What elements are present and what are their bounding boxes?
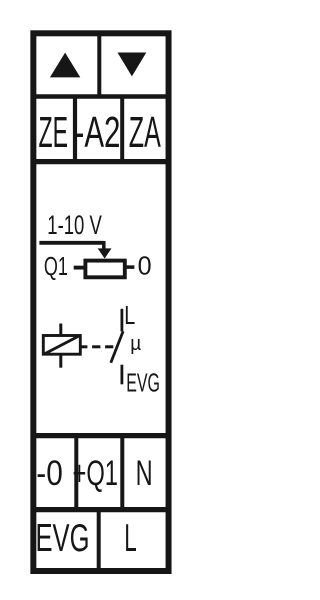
svg-text:N: N [136, 454, 153, 493]
terminal cell divider EVG/L [97, 510, 101, 571]
contact blade switch [111, 331, 123, 363]
potentiometer R1 body [85, 261, 124, 278]
wire potentiometer to 0 [126, 265, 135, 269]
control arrow head [98, 248, 112, 258]
terminal cell divider ZE/-A2 [73, 97, 77, 162]
button cell divider top row [97, 33, 101, 97]
row divider line 4 [33, 507, 169, 512]
up arrow button [50, 53, 80, 78]
terminal cell divider +Q1/N [120, 436, 124, 510]
svg-text:-A2: -A2 [75, 108, 121, 157]
svg-text:ZA: ZA [129, 108, 161, 157]
svg-text:+Q1: +Q1 [73, 454, 119, 493]
outer device frame [33, 33, 168, 571]
row divider line 1 [33, 94, 169, 99]
svg-text:EVG: EVG [126, 367, 160, 397]
terminal cell divider -0/+Q1 [74, 436, 78, 510]
wire contact terminal L [121, 309, 124, 332]
wire coil top lead [59, 324, 62, 336]
svg-text:Q1: Q1 [44, 251, 68, 281]
control arrow line [39, 241, 103, 245]
down arrow button [118, 53, 147, 77]
wire coil bottom lead [59, 355, 62, 368]
svg-text:µ: µ [130, 333, 141, 355]
terminal cell divider -A2/ZA [120, 97, 124, 162]
svg-text:L: L [124, 300, 135, 330]
svg-text:EVG: EVG [36, 517, 90, 560]
svg-text:1-10 V: 1-10 V [47, 210, 102, 240]
wire contact terminal EVG [121, 365, 124, 385]
relay coil K1 body [43, 336, 80, 355]
row divider line 2 [33, 159, 169, 164]
wire Q1 to potentiometer [74, 266, 85, 270]
relay coil diagonal [45, 336, 80, 354]
row divider line 3 [33, 433, 169, 438]
svg-text:0: 0 [138, 250, 152, 280]
svg-text:-0: -0 [36, 454, 63, 493]
svg-text:ZE: ZE [39, 108, 69, 157]
mechanical link dashed wire [80, 345, 87, 348]
svg-text:L: L [124, 517, 137, 560]
